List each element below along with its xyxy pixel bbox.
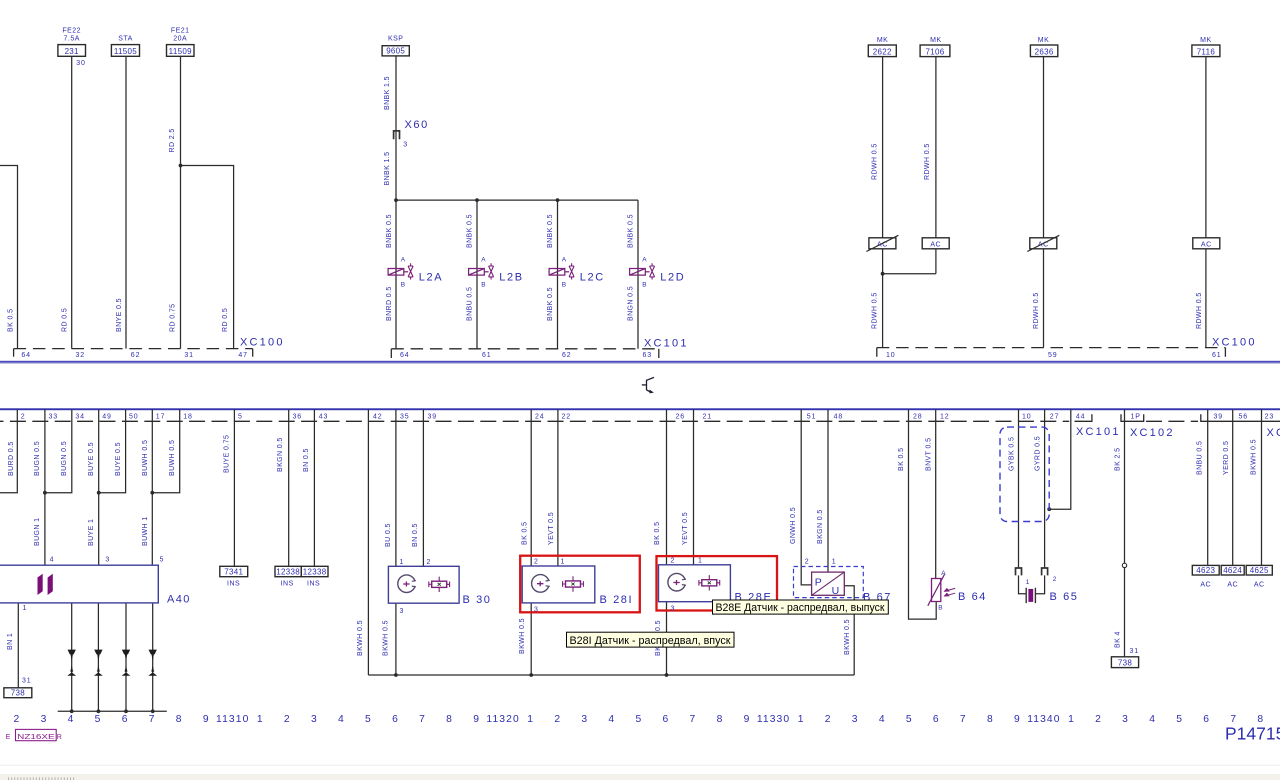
svg-text:5: 5 [365, 714, 371, 725]
svg-text:7: 7 [960, 714, 966, 725]
svg-text:RDWH 0.5: RDWH 0.5 [1033, 292, 1040, 329]
svg-text:1P: 1P [1131, 413, 1141, 420]
svg-text:1: 1 [1026, 579, 1030, 586]
svg-text:9: 9 [203, 714, 209, 725]
svg-text:6: 6 [392, 714, 398, 725]
svg-text:2: 2 [1095, 714, 1101, 725]
svg-text:32: 32 [76, 352, 86, 359]
svg-text:9605: 9605 [386, 47, 405, 56]
svg-text:3: 3 [671, 605, 676, 612]
svg-text:7106: 7106 [926, 47, 945, 56]
svg-text:7: 7 [419, 714, 425, 725]
svg-text:L2D: L2D [660, 271, 685, 283]
svg-text:BNBK 0.5: BNBK 0.5 [386, 214, 393, 248]
svg-text:BKGN 0.5: BKGN 0.5 [277, 437, 284, 472]
svg-text:STA: STA [118, 35, 133, 42]
svg-text:10: 10 [1022, 413, 1032, 420]
svg-text:B: B [562, 281, 567, 288]
svg-text:BNBU 0.5: BNBU 0.5 [1197, 441, 1204, 475]
svg-text:RDWH 0.5: RDWH 0.5 [872, 292, 879, 329]
svg-text:31: 31 [1130, 648, 1140, 655]
svg-text:51: 51 [807, 413, 817, 420]
svg-text:INS: INS [227, 580, 240, 587]
svg-text:2: 2 [671, 557, 676, 564]
svg-text:1: 1 [23, 605, 28, 612]
svg-text:BKWH 0.5: BKWH 0.5 [383, 620, 390, 656]
svg-text:11509: 11509 [169, 47, 192, 56]
svg-text:3: 3 [105, 557, 110, 564]
svg-text:3: 3 [852, 714, 858, 725]
svg-text:2: 2 [554, 714, 560, 725]
svg-text:B28I Датчик - распредвал, впус: B28I Датчик - распредвал, впуск [570, 635, 731, 647]
svg-text:2: 2 [14, 714, 20, 725]
svg-text:BK 2.5: BK 2.5 [1115, 448, 1122, 471]
svg-text:BKWH 0.5: BKWH 0.5 [844, 619, 851, 655]
svg-text:7: 7 [149, 714, 155, 725]
svg-text:6: 6 [122, 714, 128, 725]
svg-text:2: 2 [427, 559, 432, 566]
svg-text:2: 2 [825, 714, 831, 725]
svg-text:B 28I: B 28I [600, 594, 634, 606]
svg-text:BUYE 0.5: BUYE 0.5 [88, 442, 95, 476]
svg-text:3: 3 [400, 608, 405, 615]
svg-text:2: 2 [805, 558, 810, 565]
svg-text:BUYE 1: BUYE 1 [88, 519, 95, 546]
svg-text:AC: AC [1227, 581, 1238, 588]
svg-text:1: 1 [527, 714, 533, 725]
svg-text:6: 6 [933, 714, 939, 725]
svg-text:RDWH 0.5: RDWH 0.5 [924, 143, 931, 180]
svg-text:64: 64 [400, 352, 410, 359]
svg-text:BNBK 0.5: BNBK 0.5 [627, 214, 634, 248]
svg-text:B: B [401, 281, 406, 288]
svg-text:2: 2 [284, 714, 290, 725]
svg-text:7116: 7116 [1197, 47, 1216, 56]
svg-text:7: 7 [690, 714, 696, 725]
svg-text:64: 64 [21, 352, 31, 359]
svg-text:3: 3 [403, 142, 408, 149]
svg-text:39: 39 [428, 413, 438, 420]
svg-text:36: 36 [293, 413, 303, 420]
svg-text:5: 5 [635, 714, 641, 725]
svg-text:A: A [481, 256, 486, 263]
svg-text:11340: 11340 [1027, 714, 1060, 725]
svg-text:49: 49 [102, 413, 112, 420]
svg-text:XC101: XC101 [644, 337, 689, 349]
svg-text:9: 9 [473, 714, 479, 725]
svg-text:21: 21 [703, 413, 713, 420]
svg-text:U: U [832, 585, 840, 597]
svg-text:BK 0.5: BK 0.5 [898, 448, 905, 471]
svg-text:9: 9 [1014, 714, 1020, 725]
svg-text:5: 5 [1176, 714, 1182, 725]
svg-text:50: 50 [129, 413, 139, 420]
svg-text:RDWH 0.5: RDWH 0.5 [1196, 292, 1203, 329]
svg-text:20A: 20A [173, 35, 187, 42]
svg-text:4: 4 [50, 557, 55, 564]
svg-text:RD 0.5: RD 0.5 [222, 308, 229, 332]
svg-text:XC100: XC100 [240, 336, 285, 348]
svg-text:7: 7 [1230, 714, 1236, 725]
svg-text:56: 56 [1239, 413, 1249, 420]
svg-text:BK 0.5: BK 0.5 [654, 522, 661, 545]
svg-text:12: 12 [940, 413, 950, 420]
svg-text:AC: AC [1254, 581, 1265, 588]
svg-text:7.5A: 7.5A [63, 35, 79, 42]
svg-text:AC: AC [1201, 242, 1212, 249]
svg-text:18: 18 [183, 413, 193, 420]
svg-text:12338: 12338 [303, 568, 327, 577]
svg-text:30: 30 [76, 60, 86, 67]
svg-text:A: A [401, 256, 406, 263]
svg-text:22: 22 [562, 413, 572, 420]
svg-text:BKWH 0.5: BKWH 0.5 [1251, 439, 1258, 475]
svg-text:YEVT 0.5: YEVT 0.5 [682, 512, 689, 545]
svg-text:P14715: P14715 [1225, 724, 1280, 744]
svg-text:3: 3 [581, 714, 587, 725]
svg-text:4: 4 [1149, 714, 1155, 725]
svg-text:1: 1 [257, 714, 263, 725]
svg-text:2622: 2622 [873, 47, 892, 56]
svg-text:L2A: L2A [419, 271, 443, 283]
svg-text:L2C: L2C [580, 271, 605, 283]
svg-text:5: 5 [238, 413, 243, 420]
svg-text:NZ16XE: NZ16XE [17, 734, 55, 741]
svg-text:2: 2 [21, 413, 26, 420]
svg-text:BN 0.5: BN 0.5 [412, 523, 419, 547]
svg-text:12338: 12338 [276, 568, 300, 577]
svg-text:B: B [938, 604, 943, 611]
svg-text:48: 48 [834, 413, 844, 420]
svg-text:4625: 4625 [1250, 566, 1269, 575]
svg-text:BN 1: BN 1 [7, 633, 14, 650]
svg-text:GNWH 0.5: GNWH 0.5 [790, 507, 797, 544]
svg-text:4624: 4624 [1223, 566, 1242, 575]
svg-text:R: R [57, 734, 62, 741]
svg-text:5: 5 [906, 714, 912, 725]
svg-text:23: 23 [1265, 413, 1275, 420]
svg-text:61: 61 [1212, 352, 1222, 359]
svg-text:5: 5 [95, 714, 101, 725]
svg-text:11330: 11330 [757, 714, 790, 725]
svg-text:738: 738 [11, 689, 25, 698]
svg-text:RD 0.5: RD 0.5 [62, 308, 69, 332]
svg-text:9: 9 [744, 714, 750, 725]
svg-text:BUYE 0.5: BUYE 0.5 [115, 442, 122, 476]
svg-text:B: B [481, 281, 486, 288]
svg-text:63: 63 [643, 352, 653, 359]
svg-text:BNBK 1.5: BNBK 1.5 [384, 152, 391, 186]
svg-text:1: 1 [561, 559, 566, 566]
svg-text:BKWH 0.5: BKWH 0.5 [519, 618, 526, 654]
svg-text:738: 738 [1118, 658, 1132, 667]
svg-text:11320: 11320 [486, 714, 519, 725]
svg-text:A: A [642, 256, 647, 263]
svg-text:BNRD 0.5: BNRD 0.5 [386, 286, 393, 321]
svg-text:4: 4 [68, 714, 74, 725]
svg-text:42: 42 [373, 413, 383, 420]
svg-text:BNBK 0.5: BNBK 0.5 [466, 214, 473, 248]
svg-text:3: 3 [1122, 714, 1128, 725]
svg-text:L2B: L2B [499, 271, 523, 283]
svg-text:XC101: XC101 [1076, 426, 1121, 438]
svg-text:BNBK 1.5: BNBK 1.5 [384, 76, 391, 110]
svg-text:A: A [941, 570, 946, 577]
svg-text:X60: X60 [405, 119, 429, 131]
svg-text:INS: INS [281, 580, 294, 587]
svg-text:2636: 2636 [1035, 47, 1054, 56]
svg-text:BUWH 0.5: BUWH 0.5 [169, 440, 176, 476]
svg-text:XC103: XC103 [1267, 427, 1280, 439]
svg-text:BNBU 0.5: BNBU 0.5 [466, 287, 473, 321]
svg-text:33: 33 [49, 413, 59, 420]
svg-text:62: 62 [131, 352, 141, 359]
svg-text:27: 27 [1050, 413, 1060, 420]
svg-text:AC: AC [930, 242, 941, 249]
svg-text:4: 4 [608, 714, 614, 725]
svg-text:KSP: KSP [388, 36, 404, 43]
svg-text:B: B [642, 281, 647, 288]
svg-text:INS: INS [307, 580, 320, 587]
svg-text:28: 28 [913, 413, 923, 420]
svg-text:8: 8 [987, 714, 993, 725]
svg-text:BUWH 1: BUWH 1 [142, 516, 149, 546]
svg-text:BUWH 0.5: BUWH 0.5 [142, 440, 149, 476]
svg-text:4: 4 [879, 714, 885, 725]
svg-text:8: 8 [717, 714, 723, 725]
svg-text:1: 1 [698, 557, 703, 564]
svg-text:GYRD 0.5: GYRD 0.5 [1035, 436, 1042, 471]
svg-text:BNYE 0.5: BNYE 0.5 [116, 298, 123, 332]
svg-text:B 30: B 30 [463, 594, 492, 606]
svg-text:B 64: B 64 [958, 591, 987, 603]
svg-text:10: 10 [886, 352, 896, 359]
svg-text:62: 62 [562, 352, 572, 359]
svg-text:59: 59 [1048, 352, 1058, 359]
svg-text:FE21: FE21 [171, 27, 190, 34]
svg-text:XC102: XC102 [1130, 427, 1175, 439]
svg-text:17: 17 [156, 413, 166, 420]
svg-text:3: 3 [41, 714, 47, 725]
svg-text:11505: 11505 [114, 47, 137, 56]
svg-text:RD 0.75: RD 0.75 [169, 304, 176, 332]
svg-text:2: 2 [534, 559, 539, 566]
svg-text:AC: AC [1200, 581, 1211, 588]
svg-text:43: 43 [319, 413, 329, 420]
svg-text:MK: MK [1200, 37, 1212, 44]
svg-text:BKGN 0.5: BKGN 0.5 [817, 509, 824, 544]
svg-text:BK 4: BK 4 [1115, 631, 1122, 648]
svg-text:B 65: B 65 [1050, 591, 1079, 603]
svg-text:BK 0.5: BK 0.5 [522, 522, 529, 545]
svg-text:4: 4 [338, 714, 344, 725]
svg-text:BNBK 0.5: BNBK 0.5 [547, 214, 554, 248]
svg-text:61: 61 [482, 352, 492, 359]
svg-text:31: 31 [22, 677, 32, 684]
svg-text:1: 1 [798, 714, 804, 725]
svg-text:BN 0.5: BN 0.5 [303, 448, 310, 472]
svg-text:3: 3 [311, 714, 317, 725]
svg-text:44: 44 [1076, 413, 1086, 420]
svg-text:BUGN 0.5: BUGN 0.5 [61, 441, 68, 476]
svg-text:BK 0.5: BK 0.5 [7, 309, 14, 332]
svg-text:8: 8 [1257, 714, 1263, 725]
svg-text:YEVT 0.5: YEVT 0.5 [548, 512, 555, 545]
svg-text:26: 26 [676, 413, 686, 420]
svg-text:7341: 7341 [224, 568, 243, 577]
svg-text:35: 35 [400, 413, 410, 420]
svg-text:BU 0.5: BU 0.5 [385, 523, 392, 547]
svg-text:39: 39 [1214, 413, 1224, 420]
svg-text:BURD 0.5: BURD 0.5 [8, 441, 15, 476]
svg-text:BUGN 0.5: BUGN 0.5 [34, 441, 41, 476]
svg-text:MK: MK [877, 37, 889, 44]
svg-text:A: A [562, 256, 567, 263]
svg-text:FE22: FE22 [62, 27, 81, 34]
svg-text:XC100: XC100 [1212, 336, 1257, 348]
svg-text:47: 47 [238, 352, 248, 359]
svg-text:6: 6 [662, 714, 668, 725]
svg-text:1: 1 [1068, 714, 1074, 725]
svg-text:E: E [6, 734, 11, 741]
svg-text:1: 1 [832, 558, 837, 565]
svg-text:1: 1 [400, 559, 405, 566]
svg-text:BUYE 0.75: BUYE 0.75 [224, 435, 231, 473]
svg-text:11310: 11310 [216, 714, 249, 725]
svg-text:5: 5 [160, 557, 165, 564]
svg-text:BNVT 0.5: BNVT 0.5 [926, 438, 933, 471]
svg-text:8: 8 [446, 714, 452, 725]
svg-text:YERD 0.5: YERD 0.5 [1223, 441, 1230, 475]
svg-text:GYBK 0.5: GYBK 0.5 [1009, 437, 1016, 471]
svg-text:MK: MK [930, 37, 942, 44]
svg-text:24: 24 [535, 413, 545, 420]
svg-text:3: 3 [534, 607, 539, 614]
svg-text:RD 2.5: RD 2.5 [169, 128, 176, 152]
svg-text:31: 31 [184, 352, 194, 359]
svg-text:BKWH 0.5: BKWH 0.5 [357, 620, 364, 656]
svg-text:34: 34 [75, 413, 85, 420]
svg-text:BNBK 0.5: BNBK 0.5 [547, 287, 554, 321]
svg-text:BNGN 0.5: BNGN 0.5 [627, 286, 634, 321]
svg-text:P: P [815, 577, 822, 589]
svg-text:6: 6 [1203, 714, 1209, 725]
svg-text:RDWH 0.5: RDWH 0.5 [872, 143, 879, 180]
svg-text:2: 2 [1053, 576, 1057, 583]
svg-text:8: 8 [176, 714, 182, 725]
svg-text:MK: MK [1038, 37, 1050, 44]
svg-text:4623: 4623 [1196, 566, 1215, 575]
svg-text:A40: A40 [167, 593, 191, 605]
svg-text:231: 231 [65, 47, 79, 56]
svg-text:B28E Датчик - распредвал, выпу: B28E Датчик - распредвал, выпуск [716, 602, 885, 614]
svg-text:BUGN 1: BUGN 1 [34, 518, 41, 546]
